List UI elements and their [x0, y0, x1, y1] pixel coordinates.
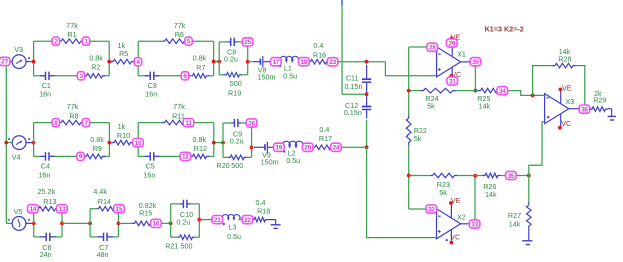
- svg-text:R7: R7: [196, 63, 205, 72]
- source V4: [12, 136, 26, 150]
- parallel block R13/C6 frame: [33, 209, 35, 237]
- svg-text:R5: R5: [119, 49, 128, 58]
- svg-text:K1=3 K2=-2: K1=3 K2=-2: [485, 25, 524, 34]
- svg-text:77k: 77k: [66, 21, 78, 30]
- capacitor C9 0.2u: [231, 122, 234, 124]
- svg-text:36: 36: [581, 106, 588, 113]
- svg-text:16n: 16n: [143, 170, 155, 179]
- svg-text:16n: 16n: [39, 90, 51, 99]
- svg-text:0.8k: 0.8k: [193, 54, 207, 63]
- svg-text:17: 17: [272, 59, 279, 66]
- svg-text:34: 34: [499, 88, 506, 95]
- node 24: [331, 143, 342, 151]
- resistor R26 14k: [475, 175, 483, 177]
- svg-text:28: 28: [429, 45, 436, 52]
- svg-text:R10: R10: [117, 131, 130, 140]
- wire node35 to R27 junction: [517, 175, 529, 177]
- feedback wire to R28: [531, 94, 535, 98]
- node 26: [246, 119, 257, 127]
- wire output riser: [474, 65, 476, 91]
- resistor R8 77k: [59, 120, 84, 125]
- parallel block C10/R21 frame: [170, 204, 172, 237]
- svg-text:10: 10: [135, 140, 142, 147]
- node 35: [506, 171, 517, 179]
- capacitor C10 0.2u: [180, 203, 183, 205]
- svg-text:R9: R9: [93, 144, 102, 153]
- svg-text:18: 18: [301, 59, 308, 66]
- svg-text:150m: 150m: [261, 158, 279, 167]
- resistor R6 77k: [162, 39, 187, 44]
- wire input bus from node 27 down to V4 and V5: [5, 62, 7, 224]
- ground below R27: [528, 229, 530, 241]
- node 5: [185, 37, 192, 45]
- svg-text:0.2u: 0.2u: [230, 137, 244, 146]
- svg-text:11: 11: [185, 120, 192, 127]
- wire output riser to R23/R26 junction: [474, 176, 476, 224]
- svg-text:0.5u: 0.5u: [286, 156, 300, 165]
- svg-text:R6: R6: [175, 30, 184, 39]
- resistor R10 1k: [112, 140, 134, 145]
- node 4: [134, 58, 141, 66]
- resistor R12 0.8k: [190, 154, 209, 159]
- wire node 32 input: [409, 208, 437, 210]
- node 7: [82, 119, 89, 127]
- battery V9 150m: [252, 146, 254, 148]
- capacitor C1 16n: [40, 75, 46, 77]
- inductor L2 0.5u: [283, 141, 304, 147]
- svg-text:32: 32: [428, 206, 435, 213]
- X2 VC power pin: [450, 230, 452, 241]
- resistor R28 14k: [553, 63, 576, 68]
- resistor R7 0.8k: [190, 74, 209, 79]
- resistor R24 5k: [409, 90, 422, 92]
- wire node 28 input: [409, 46, 437, 48]
- op-amp X1: [437, 47, 461, 77]
- svg-text:29: 29: [448, 40, 455, 47]
- svg-text:X3: X3: [565, 97, 574, 106]
- svg-text:R12: R12: [194, 144, 207, 153]
- node 15: [114, 205, 125, 213]
- svg-text:R19: R19: [228, 89, 241, 98]
- wire from top edge (off-page) down to C11/C12 midpoint: [341, 0, 343, 5]
- wire to C11 junction and op-amp: [329, 61, 385, 63]
- svg-text:0.4: 0.4: [319, 125, 329, 134]
- op-amp X3: [545, 94, 569, 124]
- X3 VE power pin: [560, 90, 562, 104]
- svg-text:16: 16: [153, 221, 160, 228]
- svg-text:0.8k: 0.8k: [89, 54, 103, 63]
- svg-text:R28: R28: [558, 55, 571, 64]
- node 21: [212, 216, 223, 224]
- resistor R13 25.2k: [37, 206, 58, 211]
- resistor R18 0.4: [252, 217, 269, 222]
- wire: [298, 61, 308, 63]
- svg-text:12: 12: [182, 154, 189, 161]
- svg-text:0.5u: 0.5u: [227, 232, 241, 241]
- capacitor C5 16n: [145, 155, 151, 157]
- svg-text:19: 19: [275, 145, 282, 152]
- resistor R22 5k vertical: [406, 116, 411, 146]
- node 4 wire: [134, 61, 139, 63]
- svg-text:R29: R29: [593, 96, 606, 105]
- parallel block R11/C5-R12 frame: [137, 123, 139, 157]
- inductor L3 0.5u: [222, 215, 240, 220]
- svg-text:R18: R18: [257, 206, 270, 215]
- svg-text:0.2u: 0.2u: [224, 54, 238, 63]
- node 20: [302, 143, 313, 151]
- svg-text:27: 27: [1, 59, 8, 66]
- svg-text:VC: VC: [561, 119, 571, 128]
- parallel block R6/C3-R7 frame: [137, 41, 139, 76]
- node 29: [447, 39, 458, 47]
- resistor R27 14k vertical: [528, 176, 530, 204]
- svg-text:0.8k: 0.8k: [90, 135, 104, 144]
- svg-text:R14: R14: [98, 197, 111, 206]
- resistor R16 0.4: [308, 59, 329, 64]
- source V3: [12, 55, 26, 69]
- node 36: [579, 105, 590, 113]
- svg-text:77k: 77k: [67, 102, 79, 111]
- node 11: [183, 119, 194, 127]
- svg-text:R21: R21: [165, 242, 178, 251]
- wire up to X3 + input: [529, 122, 545, 176]
- node 14: [28, 205, 39, 213]
- svg-text:R13: R13: [43, 197, 56, 206]
- resistor R29 2k: [589, 108, 592, 110]
- X3 VC power pin: [560, 114, 562, 128]
- node 33: [469, 220, 480, 228]
- op-amp X2: [437, 209, 461, 239]
- capacitor C4 16n: [40, 155, 46, 157]
- svg-text:14k: 14k: [509, 220, 521, 229]
- svg-text:V3: V3: [14, 45, 23, 54]
- node 30: [470, 58, 481, 66]
- X2 output pin: [461, 223, 471, 225]
- svg-text:R20: R20: [216, 161, 229, 170]
- svg-text:VC: VC: [450, 233, 460, 242]
- node 31: [447, 77, 458, 85]
- svg-text:R1: R1: [67, 30, 76, 39]
- parallel block C8/R19 frame: [218, 42, 220, 75]
- capacitor C12 0.15n: [366, 96, 368, 107]
- svg-text:L3: L3: [229, 223, 237, 232]
- X3 output pin: [569, 108, 579, 110]
- wire + junctions: [214, 60, 220, 62]
- svg-text:5k: 5k: [414, 134, 422, 143]
- ground: [268, 219, 276, 221]
- parallel block R1/C1-R2 frame: [33, 41, 35, 76]
- svg-text:C3: C3: [148, 81, 157, 90]
- svg-text:C4: C4: [41, 161, 50, 170]
- node 28: [427, 43, 438, 51]
- node 17: [271, 58, 282, 66]
- svg-text:5k: 5k: [439, 188, 447, 197]
- junction: [32, 60, 36, 64]
- capacitor C11 0.15n: [366, 65, 368, 80]
- node 3: [77, 72, 84, 80]
- parallel block R14/C7 frame: [89, 209, 91, 237]
- X2 VE power pin: [450, 203, 452, 218]
- svg-text:24: 24: [333, 145, 340, 152]
- svg-text:16n: 16n: [145, 90, 157, 99]
- node 1: [82, 37, 89, 45]
- svg-text:1k: 1k: [118, 122, 126, 131]
- svg-text:500: 500: [231, 161, 243, 170]
- svg-text:21: 21: [214, 217, 221, 224]
- resistor R17 0.4: [312, 145, 333, 150]
- resistor R19 500: [224, 73, 242, 78]
- svg-text:20: 20: [304, 145, 311, 152]
- svg-text:500: 500: [230, 79, 242, 88]
- node 10: [133, 139, 144, 147]
- node 22: [242, 216, 253, 224]
- node 2: [52, 37, 59, 45]
- parallel block R8/C4-R9 frame: [33, 123, 35, 157]
- svg-text:13: 13: [59, 206, 66, 213]
- wire: [30, 61, 34, 63]
- node 34: [497, 87, 508, 95]
- capacitor C8 0.2u: [228, 41, 231, 43]
- svg-text:23: 23: [329, 59, 336, 66]
- parallel block C9/R20 frame: [222, 123, 224, 157]
- resistor R14 4.4k: [97, 206, 117, 211]
- svg-text:14k: 14k: [479, 101, 491, 110]
- resistor R5 1k: [111, 59, 135, 64]
- svg-text:5k: 5k: [427, 101, 435, 110]
- resistor R1 77k: [59, 39, 84, 44]
- svg-text:0.2u: 0.2u: [176, 218, 190, 227]
- svg-text:R15: R15: [139, 209, 152, 218]
- node 13: [57, 205, 68, 213]
- svg-text:77k: 77k: [173, 102, 185, 111]
- svg-text:16n: 16n: [38, 170, 50, 179]
- svg-text:R16: R16: [313, 51, 326, 60]
- X1 VC power pin: [451, 67, 453, 78]
- svg-text:X2: X2: [457, 213, 466, 222]
- svg-text:0.15n: 0.15n: [345, 82, 363, 91]
- svg-text:48n: 48n: [97, 250, 109, 259]
- node 8: [52, 119, 59, 127]
- svg-text:500: 500: [181, 242, 193, 251]
- node 9: [77, 152, 84, 160]
- wire + junctions: [214, 142, 223, 144]
- resistor R21 500: [177, 235, 195, 240]
- ground after R29: [608, 108, 612, 110]
- svg-text:4.4k: 4.4k: [93, 187, 107, 196]
- svg-text:V5: V5: [14, 207, 23, 216]
- svg-text:V4: V4: [12, 153, 21, 162]
- svg-text:14k: 14k: [485, 190, 497, 199]
- svg-text:X1: X1: [457, 49, 466, 58]
- capacitor C3 16n: [145, 75, 151, 77]
- node 32: [426, 205, 437, 213]
- svg-text:0.5u: 0.5u: [283, 71, 297, 80]
- svg-text:VE: VE: [562, 84, 572, 93]
- node 19: [274, 143, 285, 151]
- resistor R25 14k: [456, 90, 479, 92]
- svg-text:R8: R8: [69, 111, 78, 120]
- resistor R23 5k: [409, 175, 430, 177]
- svg-text:30: 30: [472, 59, 479, 66]
- svg-text:C1: C1: [42, 81, 51, 90]
- svg-text:22: 22: [244, 217, 251, 224]
- svg-text:26: 26: [248, 120, 255, 127]
- wire to L3: [199, 219, 222, 221]
- svg-text:14: 14: [29, 206, 36, 213]
- wire node34 to X3: [509, 91, 545, 96]
- inductor L1 0.5u: [280, 56, 299, 61]
- svg-text:0.4: 0.4: [313, 41, 323, 50]
- svg-text:R17: R17: [319, 134, 332, 143]
- svg-text:0.15n: 0.15n: [344, 108, 362, 117]
- resistor R9 0.8k: [84, 154, 106, 159]
- svg-text:0.8k: 0.8k: [193, 135, 207, 144]
- node 12: [180, 152, 191, 160]
- capacitor C6 24n: [40, 236, 46, 238]
- svg-text:C5: C5: [146, 161, 155, 170]
- wire feedback bus vertical: [408, 47, 410, 116]
- svg-text:25: 25: [244, 39, 251, 46]
- svg-text:25.2k: 25.2k: [38, 187, 56, 196]
- node 27: [0, 57, 10, 65]
- source V5: [12, 217, 26, 231]
- resistor R20 500: [228, 155, 247, 160]
- junction dots: [365, 60, 369, 64]
- capacitor C7 48n: [98, 236, 104, 238]
- svg-text:24n: 24n: [40, 250, 52, 259]
- node 6: [181, 72, 188, 80]
- resistor R11 77k: [162, 120, 187, 125]
- svg-text:77k: 77k: [174, 21, 186, 30]
- svg-text:VE: VE: [451, 196, 461, 205]
- svg-text:31: 31: [449, 78, 456, 85]
- svg-text:35: 35: [508, 173, 515, 180]
- wire: [62, 222, 90, 224]
- svg-text:150m: 150m: [258, 73, 276, 82]
- svg-text:15: 15: [116, 206, 123, 213]
- X1 VE power pin: [451, 39, 453, 57]
- svg-text:33: 33: [471, 221, 478, 228]
- node 18: [299, 58, 310, 66]
- svg-text:R2: R2: [91, 63, 100, 72]
- X1 output pin: [461, 61, 471, 63]
- wire row2 down to X2 + input: [367, 147, 437, 237]
- resistor R2 0.8k: [84, 74, 105, 79]
- node 23: [327, 58, 338, 66]
- node 25: [242, 38, 253, 46]
- node 16: [151, 219, 162, 227]
- resistor R15 0.82k: [118, 222, 132, 224]
- battery V8 150m: [248, 61, 252, 63]
- svg-text:C11: C11: [346, 73, 359, 82]
- wire node24 to junction: [334, 146, 367, 148]
